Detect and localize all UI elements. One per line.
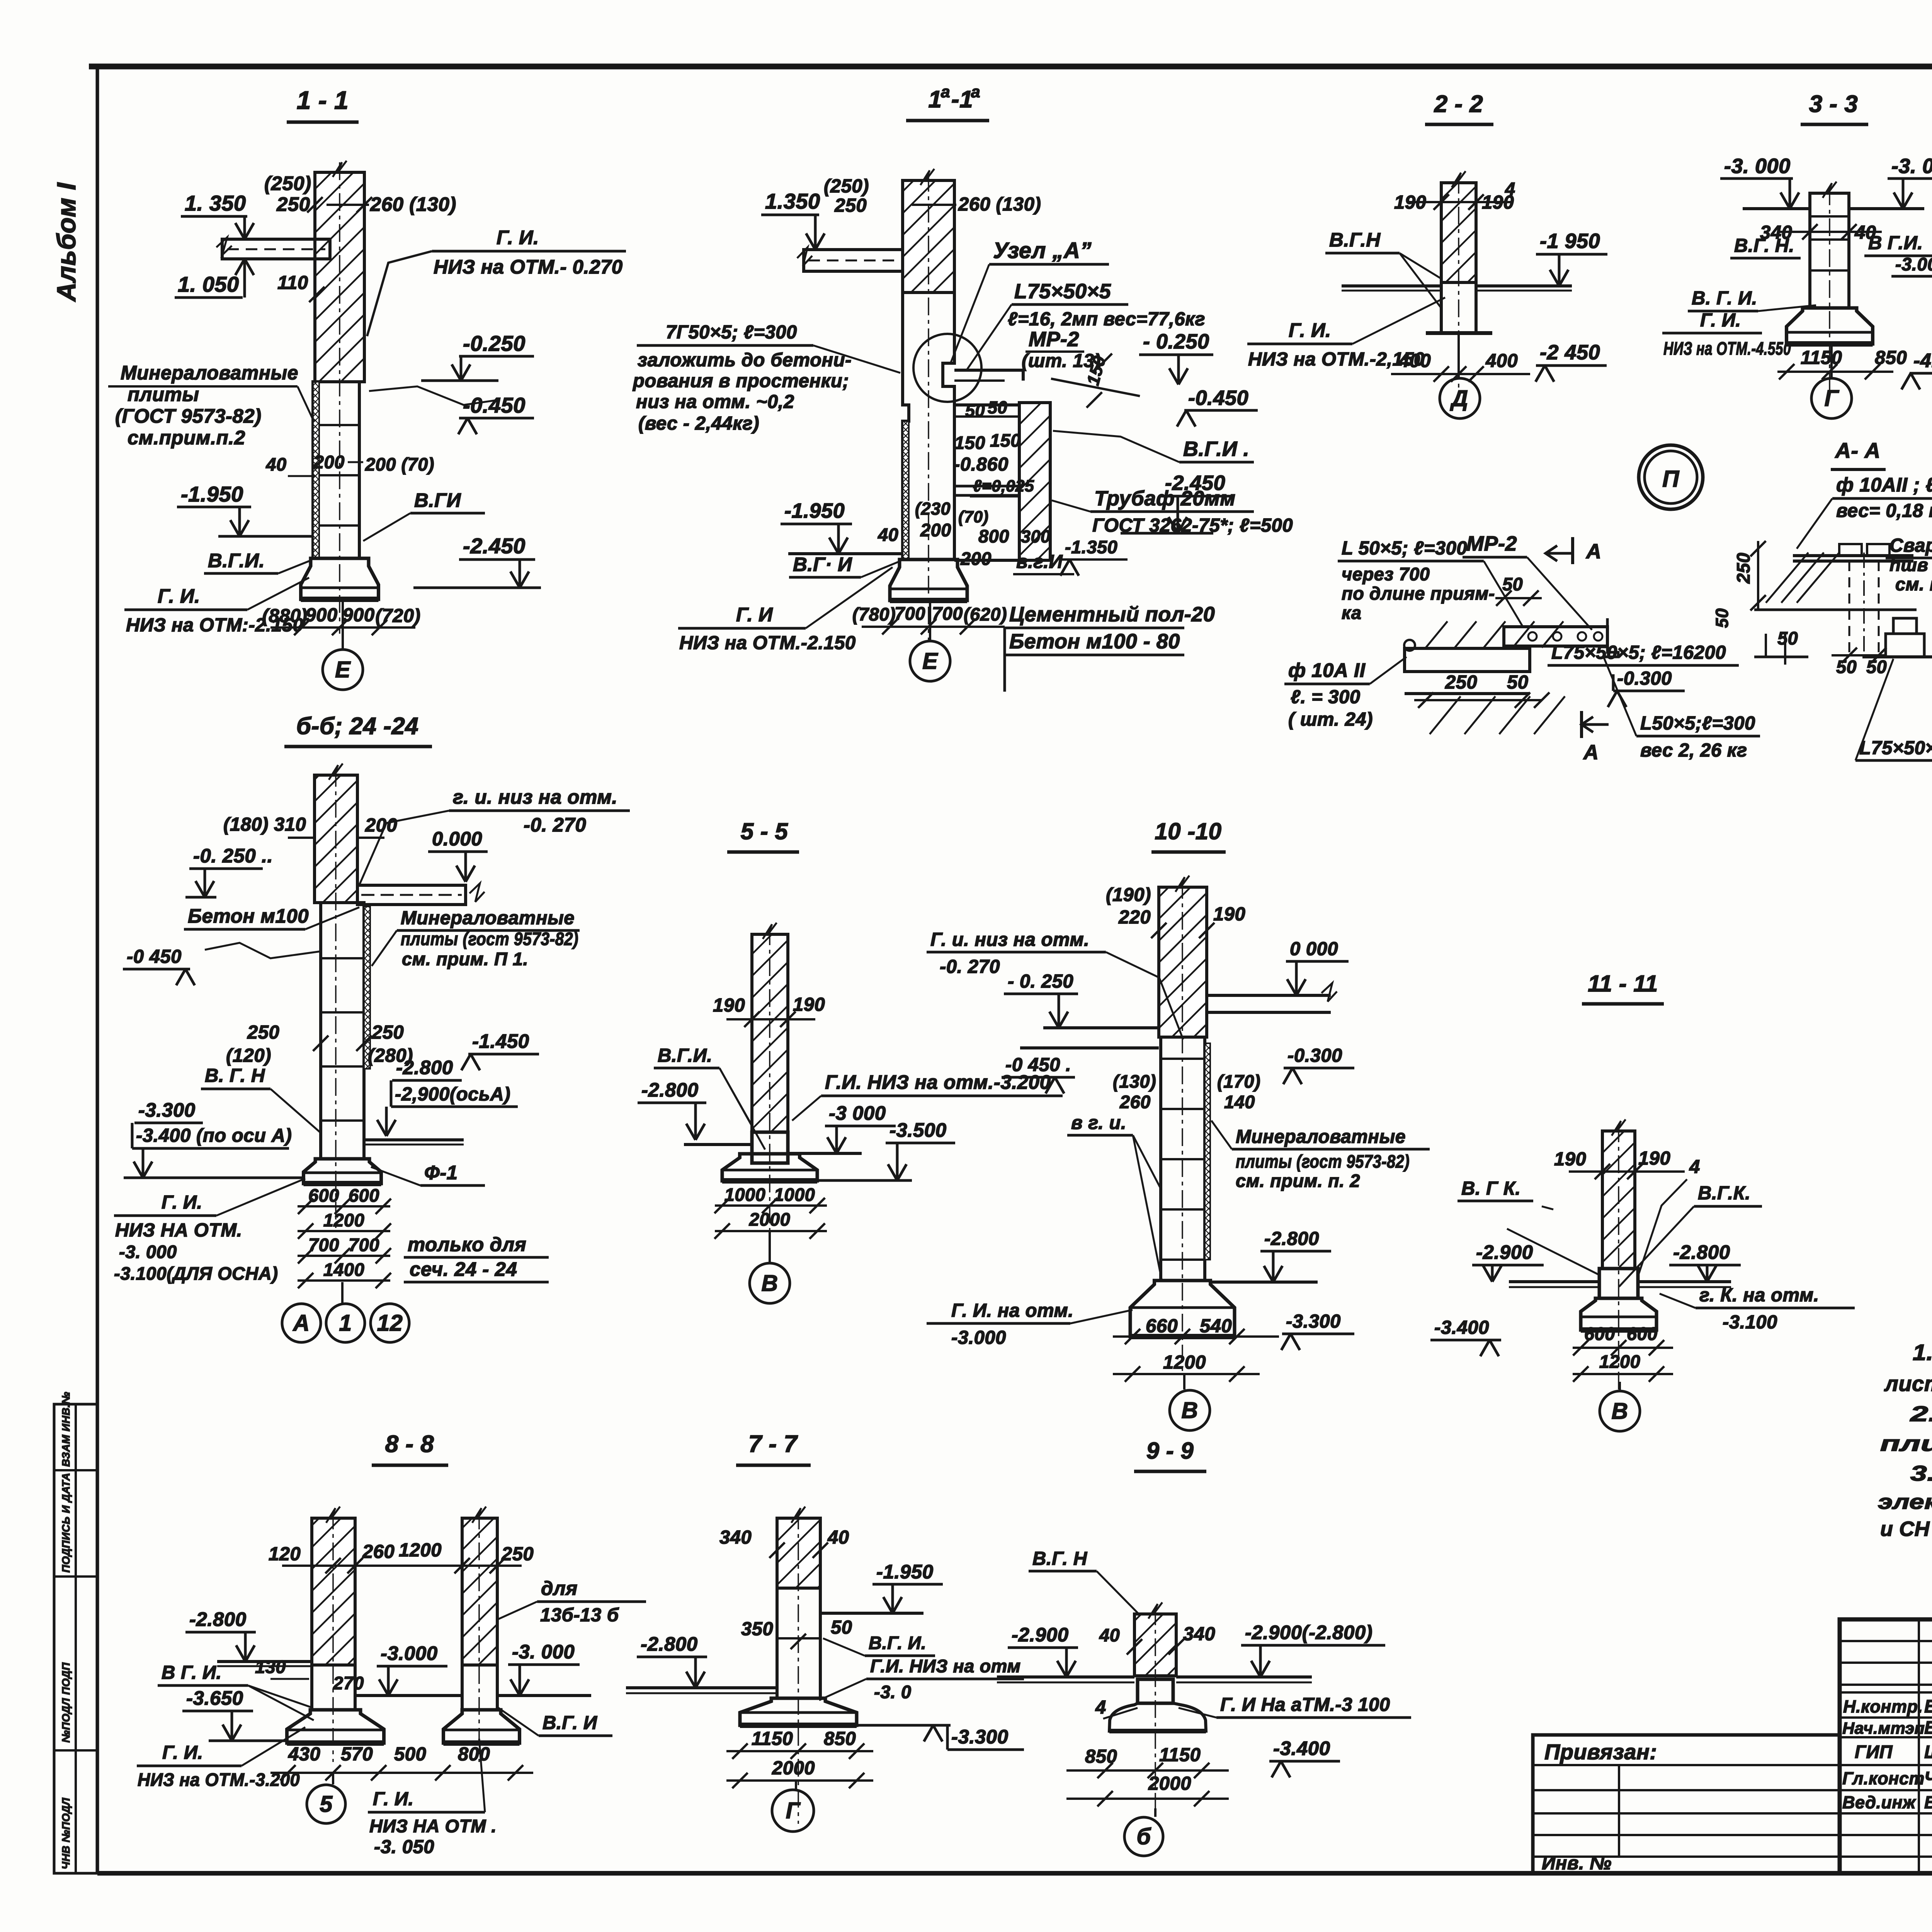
svg-text:1: 1 [339,1310,352,1336]
svg-text:по длине приям-: по длине приям- [1342,583,1495,604]
svg-text:350: 350 [741,1619,773,1639]
title block signature grid [1840,1640,1932,1642]
section 3-3 ground lines [1743,207,1810,210]
svg-text:600: 600 [308,1185,339,1206]
svg-text:- 0.250: - 0.250 [1143,330,1209,353]
svg-text:-2.800: -2.800 [641,1633,698,1655]
svg-text:(250): (250) [824,176,869,197]
section 1a-1a wall mid with notch [903,293,909,560]
svg-text:В. Г. Н: В. Г. Н [205,1065,265,1086]
svg-text:270: 270 [333,1673,364,1693]
svg-text:Г.И. НИЗ на отм: Г.И. НИЗ на отм [870,1656,1021,1676]
svg-text:0 000: 0 000 [1290,939,1338,959]
section 8-8 right wall [462,1518,497,1665]
svg-text:- 0. 250: - 0. 250 [1008,971,1073,992]
svg-text:Бетон м100: Бетон м100 [188,905,309,927]
svg-text:(720): (720) [376,605,421,626]
section 2-2 column below [1441,282,1476,333]
svg-text:500: 500 [394,1744,426,1765]
svg-text:а: а [941,83,950,101]
svg-text:-1.950: -1.950 [181,482,243,506]
svg-text:№ПОДЛ ПОДП: №ПОДЛ ПОДП [60,1662,72,1743]
svg-text:Инв. №: Инв. № [1542,1853,1612,1874]
svg-text:9 - 9: 9 - 9 [1146,1438,1194,1464]
label -0 450 (6-6) [205,943,321,958]
svg-text:13б-13 б: 13б-13 б [540,1605,619,1626]
svg-text:Г. И.: Г. И. [162,1192,202,1213]
svg-text:120: 120 [269,1544,301,1565]
svg-text:570: 570 [341,1744,373,1765]
svg-text:2 - 2: 2 - 2 [1434,91,1483,117]
axis circle V (5-5) [769,1231,771,1264]
svg-text:2000: 2000 [772,1758,815,1779]
detail A-A bolts dashed [1849,561,1850,653]
svg-text:и СН 393- 78 ( hшв. = 4 мм ): и СН 393- 78 ( hшв. = 4 мм ). [1880,1517,1932,1541]
svg-text:12: 12 [377,1310,403,1336]
svg-text:150: 150 [990,430,1021,451]
svg-text:-2 450: -2 450 [1540,341,1600,364]
svg-text:700: 700 [349,1235,379,1255]
svg-text:-3.000: -3.000 [951,1327,1006,1348]
svg-text:11 - 11: 11 - 11 [1588,971,1658,997]
section 5-5 neck [752,1132,788,1163]
svg-text:Е: Е [922,648,938,674]
svg-text:(250): (250) [264,172,311,194]
svg-text:Г: Г [786,1798,801,1823]
svg-text:200: 200 [313,452,345,472]
svg-text:ВЗАМ ИНВ.№: ВЗАМ ИНВ.№ [60,1392,72,1467]
svg-text:В.Г. И.: В.Г. И. [869,1633,926,1653]
svg-text:в г. и.: в г. и. [1071,1112,1126,1133]
axis circle E 1a [929,601,931,641]
svg-text:-0 450 .: -0 450 . [1005,1054,1071,1075]
svg-text:ℓ=0,025: ℓ=0,025 [973,477,1034,495]
svg-text:В Г. И.: В Г. И. [162,1662,222,1683]
section 10-10 ground left [1043,1026,1159,1029]
svg-text:(70): (70) [958,508,988,526]
section 1-1 footing dims [270,626,415,629]
section 1a-1a anchor bracket [954,369,1023,372]
svg-text:Нач.мтэп: Нач.мтэп [1842,1719,1925,1738]
axis circles A 1 12 [341,1282,344,1304]
section 9-9 wall [1134,1614,1176,1676]
svg-text:-2.900(-2.800): -2.900(-2.800) [1245,1621,1372,1643]
svg-text:190: 190 [1554,1149,1586,1170]
svg-text:40: 40 [1099,1625,1120,1645]
section 1a-1a centerline [928,174,929,641]
section 11-11 ground lines [1509,1280,1599,1283]
svg-text:НИЗ на ОТМ:-2.150: НИЗ на ОТМ:-2.150 [126,615,303,636]
svg-text:б-б; 24 -24: б-б; 24 -24 [296,713,419,740]
section 2-2 base line [1426,331,1492,335]
title block attach table [1533,1735,1840,1873]
svg-text:ГИП: ГИП [1855,1742,1893,1762]
svg-text:2000: 2000 [749,1209,791,1230]
svg-text:-3.100: -3.100 [1723,1312,1777,1333]
section 6-6 mineral wool strip [364,906,370,1069]
svg-text:200: 200 [920,520,951,540]
axis circle E [342,599,344,650]
section 5-5 footing [722,1154,817,1181]
axis circle D [1458,333,1460,379]
svg-text:2000: 2000 [1148,1773,1191,1794]
svg-text:-1.350: -1.350 [1065,537,1117,557]
svg-text:L75×50×5; ℓ=16200: L75×50×5; ℓ=16200 [1551,642,1726,663]
section 1a-1a pit wall hatched [1019,403,1050,560]
svg-text:900: 900 [305,605,337,626]
svg-text:190: 190 [1213,904,1245,925]
svg-text:110: 110 [277,272,308,293]
svg-text:-1: -1 [951,86,973,113]
section 7-7 wall [777,1518,820,1588]
svg-text:НИЗ на ОТМ.-2.150: НИЗ на ОТМ.-2.150 [679,633,856,653]
svg-text:Г. И.: Г. И. [373,1789,414,1810]
svg-text:200 (70): 200 (70) [365,454,434,474]
svg-text:50: 50 [1777,628,1798,648]
svg-text:260: 260 [1119,1092,1151,1112]
section 1-1 mineral wool strip [313,382,319,558]
svg-text:Г. и. низ на отм.: Г. и. низ на отм. [930,929,1089,950]
svg-text:В.ГИ: В.ГИ [414,489,461,511]
svg-text:340: 340 [719,1527,752,1548]
svg-text:НИЗ НА ОТМ .: НИЗ НА ОТМ . [369,1816,497,1836]
svg-text:Вед.инж: Вед.инж [1842,1793,1917,1812]
svg-text:-2.800: -2.800 [1673,1241,1730,1263]
svg-text:260 (130): 260 (130) [958,194,1041,215]
svg-text:700: 700 [308,1235,339,1255]
svg-text:-2.800: -2.800 [1264,1228,1319,1249]
sheet frame [89,64,1932,70]
ground wiggle line (1-1) [369,386,498,405]
svg-text:-3. 050: -3. 050 [374,1837,434,1857]
svg-text:220: 220 [1118,907,1151,928]
axis circle P double [1639,445,1703,509]
svg-text:600: 600 [349,1185,379,1206]
svg-text:Г. И.: Г. И. [1289,319,1331,341]
section 11-11 wall [1602,1131,1635,1269]
svg-text:50: 50 [1866,656,1887,677]
svg-text:П: П [1662,466,1680,492]
svg-text:-2.450: -2.450 [463,534,526,558]
svg-text:-0.860: -0.860 [954,454,1009,475]
svg-text:В.Г.К.: В.Г.К. [1698,1183,1750,1204]
svg-text:(180) 310: (180) 310 [223,814,306,835]
svg-text:Привязан:: Привязан: [1544,1740,1657,1764]
section 7-7 ground left [626,1686,777,1689]
svg-text:см.прим.п.2: см.прим.п.2 [128,427,245,449]
svg-text:см. прим.п.2: см. прим.п.2 [1895,574,1932,594]
svg-text:900: 900 [342,605,374,626]
section 1-1 wall [315,172,364,382]
svg-text:только для: только для [408,1233,526,1255]
svg-text:4: 4 [1505,179,1515,199]
section 1-1 footing [301,558,379,599]
svg-text:ка: ка [1342,602,1362,623]
svg-text:НИЗ на ОТМ.- 0.270: НИЗ на ОТМ.- 0.270 [434,256,623,278]
svg-text:вес 2, 26 кг: вес 2, 26 кг [1640,740,1747,761]
svg-text:(130): (130) [1113,1071,1156,1092]
detail A-A mid line [1754,609,1917,611]
svg-text:200: 200 [365,815,397,836]
svg-text:В.Г. И: В.Г. И [543,1713,598,1733]
section 8-8 left footing [287,1710,384,1743]
svg-text:ℓ=16, 2мп вес=77,6кг: ℓ=16, 2мп вес=77,6кг [1008,309,1205,330]
svg-text:Бухарина: Бухарина [1924,1696,1932,1716]
svg-text:-3.100(ДЛЯ ОСНА): -3.100(ДЛЯ ОСНА) [114,1263,278,1284]
section 1a-1a left slab [804,250,903,271]
svg-text:-2.800: -2.800 [641,1079,699,1101]
svg-text:800: 800 [458,1744,490,1765]
section 6-6 ground line right [364,1138,464,1141]
detail A-A hatch left [1766,553,1808,603]
svg-text:ЧНВ №ПОДЛ: ЧНВ №ПОДЛ [60,1798,72,1869]
section 8-8 left column lower [312,1665,355,1710]
section 1a-1a footing dims [862,626,1005,628]
axis circle b (9-9) [1154,1808,1156,1817]
svg-text:Г. И На аТМ.-3 100: Г. И На аТМ.-3 100 [1220,1694,1390,1715]
svg-text:-0.300: -0.300 [1617,668,1672,689]
svg-text:ф 10АII ; ℓ=300: ф 10АII ; ℓ=300 [1836,474,1932,496]
svg-text:-3. 000: -3. 000 [119,1242,177,1262]
section 1a-1a pit floor [954,403,1043,406]
svg-text:(230: (230 [915,499,951,519]
svg-text:-0.450: -0.450 [1188,386,1248,410]
svg-text:-3.400: -3.400 [1273,1737,1330,1759]
svg-text:ф 10А II: ф 10А II [1288,659,1366,681]
section 1-1 centerline [339,162,340,634]
svg-text:150: 150 [954,432,985,453]
svg-text:а: а [971,83,980,101]
svg-text:1150: 1150 [752,1728,793,1749]
section 5-5 wall [752,934,788,1132]
svg-text:50: 50 [1502,574,1523,594]
svg-text:250: 250 [1733,553,1753,584]
section 9-9 ground lines [997,1675,1134,1679]
svg-text:Г. И.: Г. И. [1700,310,1741,331]
svg-text:3. Сварку металлических элем: 3. Сварку металлических элементо произво… [1910,1461,1932,1485]
svg-text:-3. 000: -3. 000 [1724,155,1791,178]
detail A-A anchor plates [1839,544,1862,556]
section 8-8 left wall [312,1518,355,1665]
svg-text:низ на отм. ~0,2: низ на отм. ~0,2 [636,391,794,412]
svg-text:(190): (190) [1106,884,1151,905]
detail right angle [1604,618,1618,657]
svg-text:Узел „А”: Узел „А” [993,238,1092,263]
svg-text:200: 200 [960,548,992,569]
svg-text:3 - 3: 3 - 3 [1809,91,1858,117]
svg-text:-2,900(осьА): -2,900(осьА) [395,1084,510,1105]
section 1a-1a wall upper [903,180,954,293]
svg-text:б: б [1136,1824,1151,1849]
svg-text:1400: 1400 [323,1259,365,1280]
svg-text:через 700: через 700 [1342,564,1430,584]
svg-text:50: 50 [831,1617,852,1638]
svg-text:7Г50×5; ℓ=300: 7Г50×5; ℓ=300 [666,322,797,343]
svg-text:50: 50 [1712,608,1732,628]
svg-text:Н.контр.: Н.контр. [1843,1697,1923,1716]
svg-text:-0.450: -0.450 [463,393,526,417]
svg-text:В.Г· И: В.Г· И [793,553,852,575]
svg-text:190: 190 [713,995,745,1016]
svg-text:В.Г.И .: В.Г.И . [1183,437,1249,461]
svg-text:рования в простенки;: рования в простенки; [632,371,849,391]
section 1a-1a node circle A [913,334,981,402]
svg-text:(120): (120) [226,1045,271,1066]
section 7-7 footing [740,1698,857,1725]
svg-text:1200: 1200 [399,1540,442,1561]
svg-text:Минераловатные: Минераловатные [401,908,575,929]
section 10-10 right slab [1207,994,1331,997]
svg-text:В.Г.И.: В.Г.И. [208,549,265,571]
section 11-11 footing [1581,1298,1656,1330]
svg-text:(ГОСТ 9573-82): (ГОСТ 9573-82) [115,405,262,427]
section 11-11 neck [1599,1269,1638,1298]
section 3-3 footing [1787,308,1873,344]
svg-text:г. и. низ на отм.: г. и. низ на отм. [453,786,617,808]
svg-text:40: 40 [878,524,898,545]
svg-text:Цементный пол-20: Цементный пол-20 [1009,603,1215,626]
svg-text:540: 540 [1200,1316,1232,1337]
svg-text:-4.850: -4.850 [1913,349,1932,371]
svg-text:В: В [761,1270,778,1296]
svg-text:7 - 7: 7 - 7 [748,1431,798,1458]
svg-text:Д: Д [1449,386,1468,411]
svg-text:-1 950: -1 950 [1540,230,1600,253]
svg-text:электродами типа Э-42 в соо: электродами типа Э-42 в соответствии с Г… [1878,1490,1932,1514]
svg-text:Бетон м100 - 80: Бетон м100 - 80 [1009,630,1180,653]
svg-text:см. прим. П 1.: см. прим. П 1. [402,949,528,969]
section 10-10 column [1161,1037,1205,1281]
svg-text:-3.650: -3.650 [186,1687,243,1709]
section 5-5 dims [715,1204,827,1207]
svg-text:-3.300: -3.300 [951,1726,1009,1748]
svg-text:(780): (780) [852,604,896,624]
svg-text:8 - 8: 8 - 8 [385,1431,434,1458]
section 10-10 footing [1130,1281,1235,1337]
section 2-2 floor lines [1342,284,1441,287]
section 9-9 neck [1138,1679,1173,1703]
left stamp boxes [54,1404,97,1873]
section 1-1 floor slab [222,239,330,259]
svg-text:700: 700 [895,603,925,624]
svg-text:140: 140 [1224,1092,1255,1112]
section 10-10 wall [1159,887,1207,1037]
svg-text:Г. И.: Г. И. [158,585,200,607]
svg-text:Г. И.: Г. И. [497,226,539,248]
svg-text:700: 700 [932,603,963,624]
section 10-10 mineral wool strip [1205,1043,1210,1260]
svg-text:Шелевиля: Шелевиля [1924,1742,1932,1762]
svg-text:Г: Г [1825,386,1840,411]
svg-text:ПОДПИСЬ И ДАТА: ПОДПИСЬ И ДАТА [60,1473,72,1573]
svg-text:-2.900: -2.900 [1476,1241,1533,1263]
svg-text:1150: 1150 [1159,1745,1201,1765]
svg-text:ℓ. = 300: ℓ. = 300 [1291,687,1361,707]
section 6-6 column [321,903,364,1159]
svg-text:40: 40 [265,454,286,474]
svg-text:Чернецкий: Чернецкий [1924,1768,1932,1788]
svg-text:(170): (170) [1217,1071,1260,1092]
svg-text:Вольфленок: Вольфленок [1924,1793,1932,1812]
svg-text:В.Г. Н.: В.Г. Н. [1734,235,1794,256]
svg-text:в.г.И: в.г.И [1016,551,1063,572]
svg-text:2. Указания по креплению ми: 2. Указания по креплению минераловатных [1910,1401,1932,1426]
detail channel band [1504,627,1607,646]
svg-text:В Г.И.: В Г.И. [1868,233,1923,253]
svg-text:1200: 1200 [1599,1351,1641,1372]
svg-text:сеч. 24 - 24: сеч. 24 - 24 [410,1258,517,1280]
detail section mark A bottom [1580,711,1583,738]
svg-text:-3.000: -3.000 [381,1642,438,1664]
svg-text:0.000: 0.000 [432,828,482,850]
svg-text:-3.400: -3.400 [1434,1317,1489,1338]
section 6-6 dim ladder [298,1205,390,1207]
svg-text:-3.400 (по оси А): -3.400 (по оси А) [136,1125,292,1146]
section 6-6 wall [315,775,357,903]
section 3-3 column [1810,193,1849,308]
detail A-A lower channels [1893,618,1917,634]
svg-text:50: 50 [988,398,1007,417]
svg-text:600: 600 [1627,1323,1658,1344]
svg-text:Е: Е [335,657,351,682]
svg-text:-2.450: -2.450 [1165,471,1225,495]
svg-text:Г. И: Г. И [736,604,773,626]
section 8-8 right column lower [462,1665,497,1710]
section 1a-1a footing [890,560,967,600]
axis circle V (11-11) [1619,1382,1621,1391]
axis circle 5 (8-8) [332,1773,334,1784]
svg-text:50: 50 [965,401,985,420]
svg-text:1. 050: 1. 050 [178,272,239,296]
svg-text:260: 260 [362,1541,395,1562]
detail hatch marks above slab [1426,621,1447,648]
svg-text:Минераловатные: Минераловатные [1236,1126,1406,1147]
svg-text:-3.500: -3.500 [889,1119,947,1141]
svg-text:190: 190 [1638,1148,1670,1169]
svg-text:250: 250 [1445,672,1477,693]
svg-text:-3.000: -3.000 [1895,254,1932,274]
section 7-7 column [777,1588,820,1698]
svg-text:40: 40 [827,1527,849,1548]
svg-text:340: 340 [1183,1624,1215,1645]
svg-text:300: 300 [1021,527,1051,546]
svg-text:-3 000: -3 000 [829,1102,886,1124]
svg-text:400: 400 [1485,350,1518,371]
svg-text:-0. 250 ..: -0. 250 .. [193,845,273,867]
svg-text:400: 400 [1398,350,1431,371]
section 1a-1a mineral wool strip [903,421,909,560]
section 8-8 right footing [444,1710,520,1743]
svg-text:1.350: 1.350 [765,189,820,213]
detail A-A top plate [1793,554,1913,557]
section 5-5 ground lines [684,1143,752,1146]
svg-text:(620): (620) [964,604,1007,624]
svg-text:L75×50×5 ; ℓ= 16200: L75×50×5 ; ℓ= 16200 [1859,738,1932,759]
svg-text:L 50×5; ℓ=300: L 50×5; ℓ=300 [1342,538,1467,559]
svg-text:-3.300: -3.300 [138,1099,196,1121]
svg-text:250: 250 [371,1022,404,1043]
svg-text:-1.950: -1.950 [876,1561,934,1583]
section 6-6 right slab [357,885,466,905]
svg-text:-0. 270: -0. 270 [524,814,586,836]
svg-text:В: В [1181,1398,1198,1423]
svg-text:В.Г.И.: В.Г.И. [658,1045,712,1066]
axis circle V (10-10) [1183,1374,1185,1389]
svg-text:4: 4 [1095,1697,1106,1718]
svg-text:1000: 1000 [724,1184,766,1205]
svg-text:50: 50 [1507,672,1529,693]
svg-text:-3.300: -3.300 [1286,1311,1341,1332]
